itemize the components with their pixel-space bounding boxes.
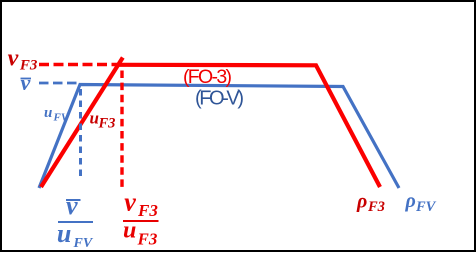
svg-text:v: v — [21, 70, 31, 95]
svg-text:u: u — [57, 219, 71, 248]
svg-text:F3: F3 — [137, 201, 158, 220]
svg-text:FV: FV — [53, 111, 70, 123]
svg-text:FV: FV — [73, 236, 94, 251]
svg-text:u: u — [44, 105, 52, 121]
svg-text:F3: F3 — [367, 199, 385, 215]
svg-text:F3: F3 — [98, 116, 116, 132]
svg-text:(FO-V): (FO-V) — [195, 88, 244, 110]
svg-text:FV: FV — [415, 199, 437, 215]
svg-text:F3: F3 — [137, 230, 158, 249]
svg-text:ρ: ρ — [405, 190, 416, 212]
svg-text:ρ: ρ — [356, 191, 367, 213]
svg-text:u: u — [123, 218, 136, 244]
svg-text:v: v — [8, 46, 19, 72]
svg-text:(FO-3): (FO-3) — [183, 66, 232, 88]
svg-text:v: v — [66, 191, 78, 220]
svg-text:v: v — [124, 188, 136, 217]
